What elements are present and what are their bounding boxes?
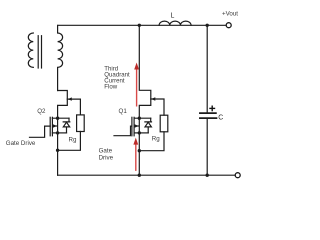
svg-text:Rg: Rg xyxy=(69,136,77,143)
body diode D2 xyxy=(63,118,70,133)
node: Rg2 return xyxy=(56,149,59,152)
svg-text:Gate Drive: Gate Drive xyxy=(6,140,36,147)
transistor Q1 xyxy=(114,117,151,136)
svg-text:Drive: Drive xyxy=(99,155,114,162)
node: Q1 drain / top rail xyxy=(138,24,141,27)
resistor Rg (Q1) xyxy=(160,115,168,132)
terminal bottom right xyxy=(235,173,240,178)
arrow into Rg1 xyxy=(151,97,155,100)
capacitor C plates xyxy=(200,113,217,118)
wire: Rg1 return xyxy=(139,132,164,151)
resistor Rg (Q2) xyxy=(77,115,85,132)
node: C / top rail xyxy=(206,24,209,27)
wire: top rail xyxy=(58,24,226,26)
svg-text:Q2: Q2 xyxy=(37,108,46,115)
svg-text:Gate: Gate xyxy=(99,147,113,154)
wire: bottom rail xyxy=(58,174,236,176)
node: C / bottom rail xyxy=(206,174,209,177)
wire: Rg2 return xyxy=(58,132,81,151)
svg-text:Q1: Q1 xyxy=(119,108,128,115)
terminal +Vout xyxy=(226,23,231,28)
arrow into Rg2 xyxy=(68,97,72,100)
node: Q2 drain xyxy=(56,117,59,120)
red arrow upper (third quadrant current) xyxy=(134,63,139,107)
wire: Q1 drain from top rail xyxy=(139,25,151,118)
svg-text:C: C xyxy=(218,115,223,122)
node: Q1 source xyxy=(138,131,141,134)
svg-text:+Vout: +Vout xyxy=(222,11,238,18)
svg-text:Flow: Flow xyxy=(104,84,117,91)
transformer T1 secondary winding xyxy=(58,25,63,90)
svg-text:L: L xyxy=(171,13,175,20)
capacitor C lead bottom xyxy=(206,119,208,175)
wire: Q2 source to bottom rail xyxy=(57,133,59,175)
svg-text:Rg: Rg xyxy=(152,136,160,143)
node: Rg1 return xyxy=(138,149,141,152)
wire: Rg2 branch xyxy=(67,99,80,115)
wire: Rg1 branch xyxy=(151,99,164,115)
inductor L xyxy=(159,21,191,25)
node: Q1 source / bottom rail xyxy=(138,174,141,177)
body diode D1 xyxy=(145,118,152,133)
wire: Q2 drain jog xyxy=(58,91,68,119)
red arrow lower (third quadrant current) xyxy=(133,138,138,171)
node: Q2 source xyxy=(56,131,59,134)
transistor Q2 xyxy=(30,117,70,137)
capacitor C lead top xyxy=(206,25,208,112)
capacitor + polarity mark xyxy=(210,106,215,110)
wire: Q1 source to bottom rail xyxy=(138,133,140,175)
transformer core xyxy=(38,36,41,68)
transformer T1 primary winding xyxy=(28,33,33,67)
node: Q1 drain xyxy=(138,117,141,120)
